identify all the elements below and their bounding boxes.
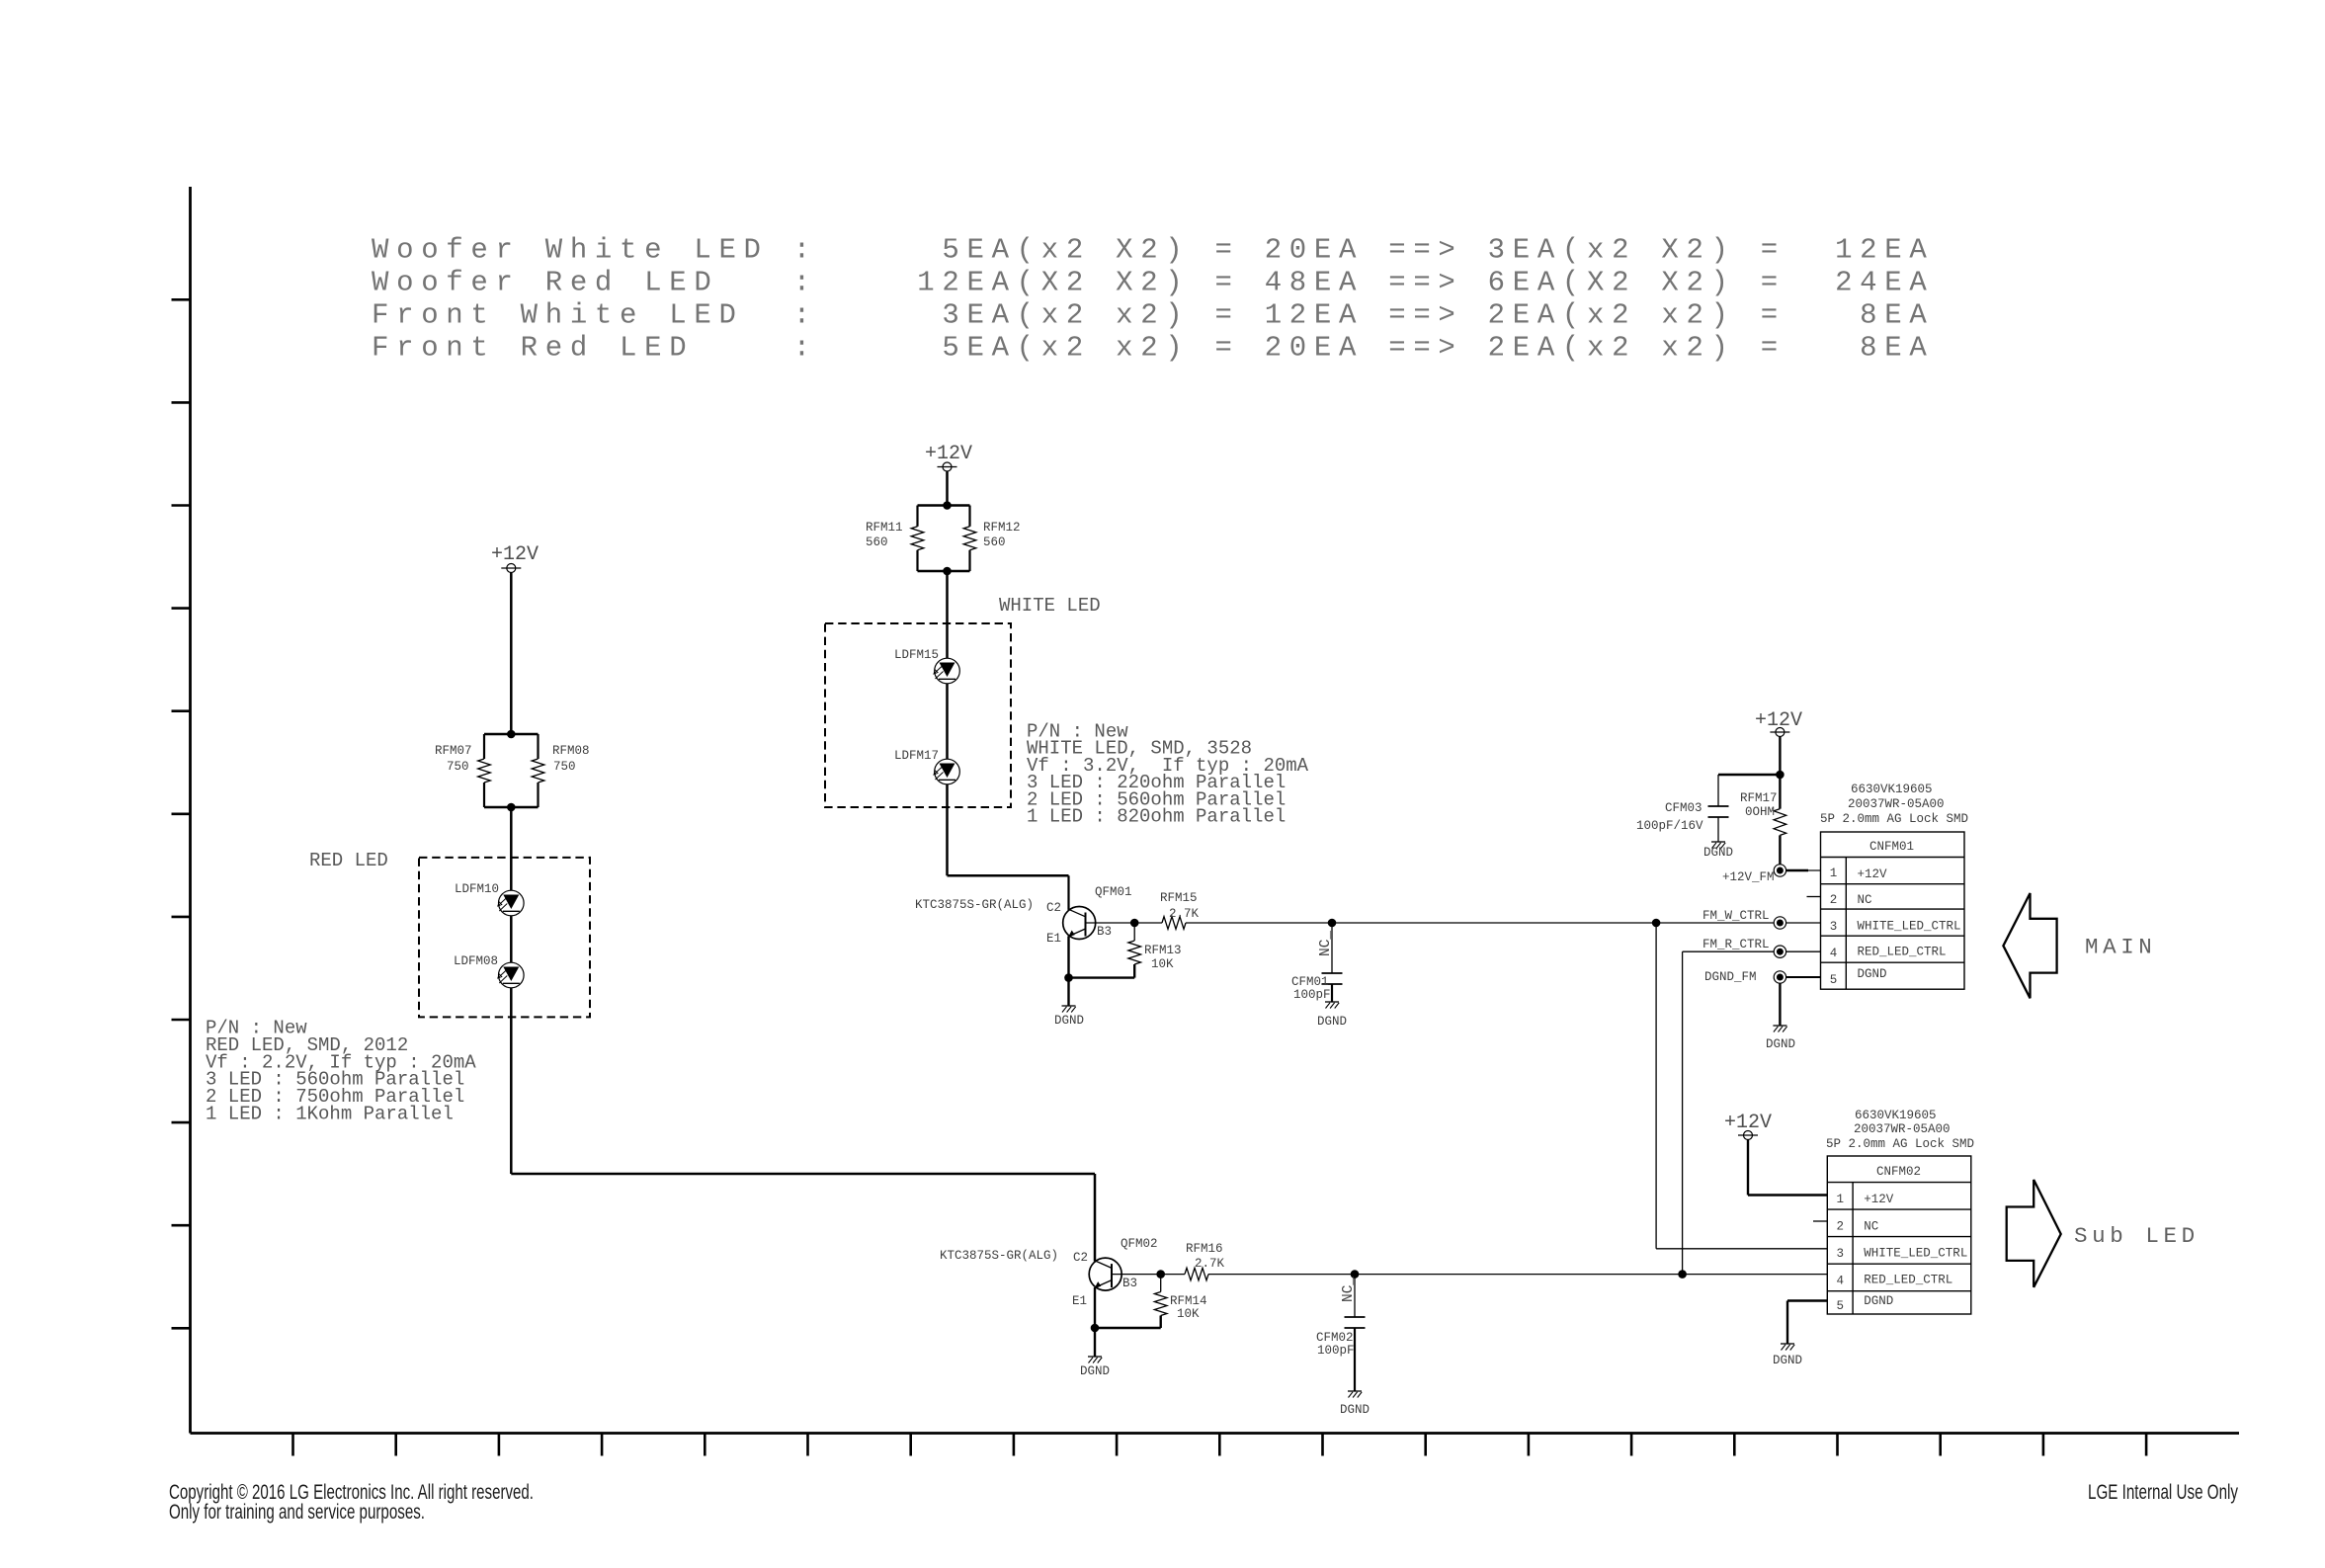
wire CFM02 to ground: [1354, 1328, 1356, 1391]
wire LDFM15 to LDFM17: [946, 684, 949, 759]
svg-text:DGND: DGND: [1054, 1014, 1084, 1028]
wire red LED string to QFM02 collector: [511, 988, 1095, 1262]
svg-text:2: 2: [1837, 1220, 1845, 1234]
svg-text:2.7K: 2.7K: [1195, 1257, 1225, 1271]
terminal DGND_FM: [1704, 970, 1786, 984]
svg-text:FM_R_CTRL: FM_R_CTRL: [1702, 938, 1770, 951]
svg-text:6630VK19605: 6630VK19605: [1851, 783, 1933, 796]
ground DGND (QFM01 emitter): [1054, 1006, 1084, 1028]
wire QFM01 emitter to ground / RFM13: [1064, 936, 1134, 1006]
net stub NC_ (CFM02): [1341, 1275, 1357, 1317]
svg-text:KTC3875S-GR(ALG): KTC3875S-GR(ALG): [915, 898, 1034, 912]
wire CFM03 to ground: [1717, 817, 1719, 842]
svg-text:E1: E1: [1046, 932, 1061, 946]
svg-text:CNFM02: CNFM02: [1876, 1165, 1921, 1179]
wire terminal to CNFM01 pin3: [1786, 922, 1821, 924]
wire terminal to CNFM01 pin1: [1786, 869, 1821, 871]
svg-text:750: 750: [553, 760, 576, 774]
svg-text:Front White LED : 3EA(x2: Front White LED : 3EA(x2 x2) = 12EA ==> …: [372, 299, 1934, 332]
wire +12V to CNFM02 pin1: [1748, 1140, 1827, 1196]
sheet border left edge: [189, 187, 192, 1434]
ground DGND (CFM02): [1340, 1391, 1370, 1417]
terminal FM_R_CTRL: [1702, 938, 1786, 957]
svg-text:2.7K: 2.7K: [1169, 907, 1200, 921]
wire QFM02 base to node: [1112, 1270, 1165, 1279]
svg-text:1: 1: [1837, 1193, 1845, 1206]
svg-text:RED_LED_CTRL: RED_LED_CTRL: [1864, 1274, 1952, 1287]
border ruler ticks left: [172, 299, 191, 1328]
svg-text:10K: 10K: [1177, 1307, 1200, 1321]
svg-text:+12V: +12V: [925, 443, 972, 465]
node: resistor pair bottom bar: [484, 803, 539, 812]
LED LDFM17: [894, 749, 959, 784]
label WHITE LED: [999, 595, 1101, 617]
note: red LED P/N info: [206, 1018, 476, 1125]
svg-text:DGND_FM: DGND_FM: [1704, 970, 1757, 984]
svg-text:RFM08: RFM08: [552, 744, 590, 758]
node: resistor pair top bar: [484, 730, 539, 739]
svg-text:RFM12: RFM12: [983, 521, 1021, 535]
wire FM_W vertical to CNFM02 pin3: [1656, 923, 1827, 1249]
resistor RFM08 750: [532, 734, 589, 807]
wire +12V to node: [1718, 737, 1785, 780]
svg-text:B3: B3: [1097, 925, 1112, 939]
svg-text:Woofer Red LED : 12EA(X2: Woofer Red LED : 12EA(X2 X2) = 48EA ==> …: [372, 267, 1934, 299]
svg-text:5: 5: [1837, 1299, 1845, 1313]
svg-text:Only for training and service: Only for training and service purposes.: [169, 1501, 425, 1524]
svg-text:NC: NC: [1864, 1220, 1878, 1234]
svg-text:560: 560: [983, 536, 1006, 549]
svg-text:LDFM17: LDFM17: [894, 749, 939, 763]
svg-text:5P 2.0mm AG Lock SMD: 5P 2.0mm AG Lock SMD: [1820, 812, 1968, 826]
svg-text:100pF: 100pF: [1317, 1344, 1355, 1358]
wire +12V to resistor pair RFM07/RFM08: [510, 573, 513, 735]
note: white LED P/N info: [1027, 721, 1309, 828]
svg-text:E1: E1: [1072, 1294, 1087, 1308]
svg-text:DGND: DGND: [1080, 1364, 1110, 1378]
svg-text:CFM02: CFM02: [1316, 1331, 1354, 1345]
ground DGND (CFM03): [1703, 842, 1733, 860]
LED LDFM15: [894, 648, 959, 684]
label RED LED: [309, 850, 388, 871]
svg-text:RED_LED_CTRL: RED_LED_CTRL: [1858, 946, 1947, 959]
node: resistor pair top bar: [918, 501, 970, 510]
svg-text:WHITE_LED_CTRL: WHITE_LED_CTRL: [1864, 1247, 1967, 1261]
svg-text:+12V: +12V: [1858, 867, 1888, 881]
svg-text:3: 3: [1837, 1247, 1845, 1261]
LED LDFM10: [455, 882, 524, 916]
svg-text:MAIN: MAIN: [2085, 935, 2156, 960]
svg-text:Sub LED: Sub LED: [2074, 1223, 2200, 1249]
node FM_W_CTRL branch: [1652, 919, 1661, 928]
svg-text:20037WR-05A00: 20037WR-05A00: [1848, 797, 1945, 811]
svg-text:Front Red LED : 5EA(x2: Front Red LED : 5EA(x2 x2) = 20EA ==> 2E…: [372, 332, 1934, 365]
wire CFM01 to ground: [1331, 984, 1333, 1002]
resistor RFM15 2.7K: [1134, 891, 1199, 929]
terminal FM_W_CTRL: [1702, 909, 1786, 929]
svg-text:DGND: DGND: [1766, 1037, 1795, 1051]
svg-text:DGND: DGND: [1340, 1403, 1370, 1417]
transistor QFM02 KTC3875S-GR(ALG): [940, 1237, 1158, 1308]
svg-text:750: 750: [447, 760, 469, 774]
WHITE LED group dashed box: [825, 623, 1011, 807]
resistor RFM16 2.7K: [1161, 1242, 1225, 1280]
power +12V (red LED branch): [491, 543, 539, 573]
svg-text:CFM03: CFM03: [1665, 801, 1702, 815]
svg-text:FM_W_CTRL: FM_W_CTRL: [1702, 909, 1770, 923]
resistor RFM17 0OHM: [1740, 775, 1786, 865]
svg-text:0OHM: 0OHM: [1745, 805, 1775, 819]
pin2 NC stub (CNFM02): [1813, 1220, 1827, 1222]
connector CNFM02 6630VK19605: [1826, 1109, 1974, 1314]
resistor RFM07 750: [435, 734, 490, 807]
wire RFM16 to CNFM02 pin4: [1208, 1274, 1827, 1276]
svg-text:DGND: DGND: [1773, 1354, 1802, 1367]
svg-text:LDFM15: LDFM15: [894, 648, 939, 662]
svg-text:WHITE_LED_CTRL: WHITE_LED_CTRL: [1858, 920, 1961, 934]
note: LED quantity summary text: [372, 234, 1934, 365]
footer copyright text: [169, 1481, 534, 1524]
svg-text:20037WR-05A00: 20037WR-05A00: [1854, 1122, 1951, 1136]
svg-text:1 LED : 1Kohm Parallel: 1 LED : 1Kohm Parallel: [206, 1104, 454, 1125]
svg-text:1 LED : 820ohm Parallel: 1 LED : 820ohm Parallel: [1027, 806, 1286, 828]
svg-text:NC_: NC_: [1318, 931, 1334, 956]
node on FM_W_CTRL for CFM01: [1328, 919, 1337, 928]
svg-text:1: 1: [1830, 867, 1838, 880]
svg-text:DGND: DGND: [1317, 1015, 1347, 1029]
resistor RFM13 10K: [1128, 923, 1182, 978]
svg-text:3: 3: [1830, 920, 1838, 934]
svg-text:QFM02: QFM02: [1121, 1237, 1158, 1251]
svg-text:NC_: NC_: [1341, 1277, 1357, 1302]
arrow MAIN (to main board): [2003, 893, 2156, 998]
svg-text:RFM14: RFM14: [1170, 1294, 1207, 1308]
ground DGND (CNFM02 pin5): [1773, 1344, 1802, 1367]
footer LGE internal note: [2088, 1481, 2238, 1504]
svg-text:RFM16: RFM16: [1186, 1242, 1223, 1256]
terminal +12V_FM: [1722, 865, 1786, 884]
svg-text:RFM07: RFM07: [435, 744, 472, 758]
svg-text:C2: C2: [1046, 901, 1061, 915]
svg-text:CNFM01: CNFM01: [1869, 840, 1914, 854]
svg-text:C2: C2: [1073, 1251, 1088, 1265]
svg-text:10K: 10K: [1151, 957, 1174, 971]
connector CNFM01 6630VK19605: [1820, 783, 1968, 989]
net stub NC_ (CFM01): [1318, 923, 1334, 973]
node on RFM16 line for CFM02: [1351, 1270, 1360, 1279]
svg-text:CFM01: CFM01: [1291, 975, 1329, 989]
wire FM_W_CTRL net: [1186, 922, 1774, 924]
svg-text:4: 4: [1837, 1275, 1845, 1288]
svg-text:RFM17: RFM17: [1740, 791, 1778, 805]
node: resistor pair bottom bar: [918, 567, 970, 576]
svg-text:KTC3875S-GR(ALG): KTC3875S-GR(ALG): [940, 1249, 1058, 1263]
svg-text:RFM15: RFM15: [1160, 891, 1198, 905]
ground DGND (CFM01): [1317, 1002, 1347, 1029]
wire CNFM02 pin5 to ground: [1787, 1301, 1827, 1345]
ground DGND (DGND_FM): [1766, 1026, 1795, 1051]
ground DGND (QFM02 emitter): [1080, 1357, 1110, 1378]
svg-text:RED LED: RED LED: [309, 850, 388, 871]
wire resistor pair to LED box: [946, 571, 949, 658]
resistor RFM11 560: [866, 506, 924, 572]
svg-text:100pF/16V: 100pF/16V: [1636, 819, 1703, 833]
LED LDFM08: [454, 954, 524, 988]
node FM_R / CNFM02 pin4: [1678, 1270, 1687, 1279]
RED LED group dashed box: [419, 858, 590, 1018]
svg-text:5P 2.0mm AG Lock SMD: 5P 2.0mm AG Lock SMD: [1826, 1137, 1974, 1151]
svg-text:LDFM08: LDFM08: [454, 954, 498, 968]
svg-text:560: 560: [866, 536, 888, 549]
wire +12V to resistor pair RFM11/RFM12: [946, 471, 949, 506]
resistor RFM12 560: [963, 506, 1020, 572]
transistor QFM01 KTC3875S-GR(ALG): [915, 885, 1132, 946]
svg-text:LDFM10: LDFM10: [455, 882, 499, 896]
wire QFM02 emitter to ground / RFM14: [1091, 1287, 1161, 1357]
svg-text:DGND: DGND: [1864, 1294, 1893, 1308]
capacitor CFM02 100pF: [1316, 1317, 1366, 1358]
power +12V (white LED branch): [925, 443, 972, 471]
wire DGND_FM to ground: [1779, 983, 1781, 1026]
border ruler ticks bottom: [293, 1434, 2147, 1456]
svg-text:B3: B3: [1122, 1277, 1137, 1290]
arrow Sub LED: [2007, 1180, 2200, 1287]
svg-text:NC: NC: [1858, 893, 1872, 907]
svg-text:6630VK19605: 6630VK19605: [1855, 1109, 1937, 1122]
svg-text:QFM01: QFM01: [1095, 885, 1132, 899]
wire terminal to CNFM01 pin5: [1786, 976, 1821, 978]
wire resistor pair to LED box: [510, 807, 513, 891]
capacitor CFM03 100pF/16V: [1636, 775, 1729, 833]
power +12V (CNFM01): [1755, 709, 1802, 737]
wire FM_R_CTRL net: [1683, 951, 1775, 1274]
power +12V (CNFM02): [1724, 1112, 1772, 1140]
svg-text:+12V_FM: +12V_FM: [1722, 870, 1775, 884]
wire QFM01 base to node: [1086, 919, 1139, 928]
svg-text:+12V: +12V: [1864, 1193, 1894, 1206]
sheet border bottom edge: [191, 1432, 2240, 1435]
svg-text:Woofer White LED : 5EA(x2: Woofer White LED : 5EA(x2 X2) = 20EA ==>…: [372, 234, 1934, 267]
capacitor CFM01 100pF: [1291, 973, 1343, 1002]
svg-text:RFM11: RFM11: [866, 521, 903, 535]
svg-text:WHITE LED: WHITE LED: [999, 595, 1101, 617]
svg-text:+12V: +12V: [1755, 709, 1802, 732]
svg-text:RFM13: RFM13: [1144, 944, 1182, 957]
wire LDFM10 to LDFM08: [510, 916, 513, 962]
pin2 NC stub (CNFM01): [1807, 896, 1821, 898]
resistor RFM14 10K: [1154, 1275, 1206, 1328]
svg-text:+12V: +12V: [491, 543, 539, 566]
svg-text:LGE Internal Use Only: LGE Internal Use Only: [2088, 1481, 2238, 1504]
wire terminal to CNFM01 pin4: [1786, 950, 1821, 952]
svg-text:DGND: DGND: [1703, 846, 1733, 860]
svg-text:DGND: DGND: [1858, 967, 1887, 981]
svg-text:+12V: +12V: [1724, 1112, 1772, 1134]
wire white LED string to QFM01 collector: [948, 784, 1069, 910]
svg-text:2: 2: [1830, 893, 1838, 907]
svg-text:100pF: 100pF: [1293, 988, 1331, 1002]
svg-text:4: 4: [1830, 947, 1838, 960]
svg-text:5: 5: [1830, 973, 1838, 987]
